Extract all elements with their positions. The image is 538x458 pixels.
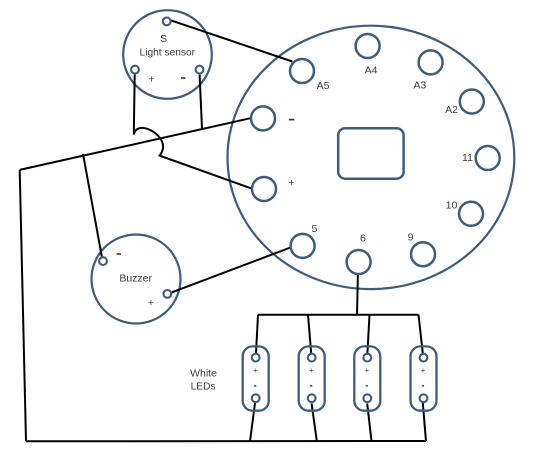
svg-text:+: + xyxy=(148,297,154,309)
svg-text:+: + xyxy=(253,366,258,375)
svg-text:A5: A5 xyxy=(317,80,330,92)
buzzer pin + xyxy=(164,290,172,298)
svg-text:+: + xyxy=(309,366,314,375)
LED D2 + pin xyxy=(308,354,316,362)
svg-text:A3: A3 xyxy=(413,79,426,91)
wire left bus vertical xyxy=(20,170,26,441)
svg-text:A2: A2 xyxy=(445,104,458,116)
wire LED top bus xyxy=(258,314,419,316)
LED D2 - label xyxy=(310,385,312,387)
buzzer body xyxy=(92,235,181,324)
light sensor pin - xyxy=(196,66,204,74)
controller board U1 outline xyxy=(228,26,515,289)
board pin A4 xyxy=(356,34,380,58)
wire LED2 - pin to bottom bus xyxy=(312,404,317,442)
LED D2 - pin xyxy=(308,394,316,402)
svg-text:Light sensor: Light sensor xyxy=(140,48,196,59)
svg-text:LEDs: LEDs xyxy=(191,382,216,393)
wire buzzer - up to W1 junction xyxy=(83,154,102,257)
wire bus to LED1 + pin xyxy=(256,315,258,354)
svg-text:10: 10 xyxy=(446,200,458,212)
svg-text:+: + xyxy=(421,366,426,375)
board pin 6 xyxy=(347,250,371,274)
wire LED3 - pin to bottom bus xyxy=(367,404,371,442)
light sensor pin S xyxy=(163,18,171,26)
LED D3 - pin xyxy=(363,394,371,402)
svg-text:+: + xyxy=(148,74,154,86)
LED D3 body xyxy=(354,346,380,410)
wire LED1 - pin to bottom bus xyxy=(250,403,255,441)
wire S pin to A5 xyxy=(171,20,292,61)
svg-text:9: 9 xyxy=(408,232,414,244)
svg-text:White: White xyxy=(190,368,217,380)
svg-text:5: 5 xyxy=(311,223,317,235)
svg-text:S: S xyxy=(160,33,167,45)
svg-text:Buzzer: Buzzer xyxy=(119,272,152,284)
light sensor - label xyxy=(181,77,186,79)
wire light sensor - down to W1 junction xyxy=(200,75,202,129)
wire bottom bus xyxy=(26,440,426,442)
wire LED4 - pin to bottom bus xyxy=(423,403,426,441)
board pin + xyxy=(252,177,276,201)
board pin 10 xyxy=(459,202,483,226)
LED D3 + pin xyxy=(363,354,371,362)
LED D1 - label xyxy=(254,385,256,387)
board pin 5 xyxy=(291,234,315,258)
LED D2 body xyxy=(299,346,325,410)
LED D4 - pin xyxy=(420,394,428,402)
wire board pin 6 down to LED top bus xyxy=(356,274,359,314)
board pin A3 xyxy=(419,50,443,74)
wire bus to LED2 + pin xyxy=(308,315,311,354)
LED D1 - pin xyxy=(252,394,260,402)
wire light sensor + down with hop then to board + pin xyxy=(134,74,251,188)
svg-text:6: 6 xyxy=(360,232,366,244)
buzzer pin - xyxy=(99,257,107,265)
LED D1 + pin xyxy=(252,354,260,362)
wire bus to LED4 + pin xyxy=(419,315,423,354)
wire buzzer + to board pin 5 xyxy=(172,248,291,293)
buzzer - label xyxy=(117,253,121,255)
LED D4 body xyxy=(411,346,437,410)
LED D1 body xyxy=(243,346,269,410)
LED D4 - label xyxy=(422,385,424,387)
wire bus to LED3 + pin xyxy=(367,315,369,354)
LED D3 - label xyxy=(366,385,368,387)
controller board center pad xyxy=(338,128,403,179)
light sensor pin + xyxy=(131,66,139,74)
svg-text:A4: A4 xyxy=(365,64,378,76)
board pin 11 xyxy=(476,146,500,170)
svg-text:+: + xyxy=(364,366,369,375)
svg-text:+: + xyxy=(288,177,294,189)
wire W1 negative bus diagonal to board - pin xyxy=(20,118,251,170)
light sensor S body xyxy=(123,10,212,99)
board pin 9 xyxy=(411,242,435,266)
board pin A5 xyxy=(290,59,314,83)
LED D4 + pin xyxy=(420,354,428,362)
board pin - xyxy=(251,106,275,130)
board pin A2 xyxy=(460,90,484,114)
pin label - xyxy=(289,119,295,121)
svg-text:11: 11 xyxy=(462,152,473,164)
